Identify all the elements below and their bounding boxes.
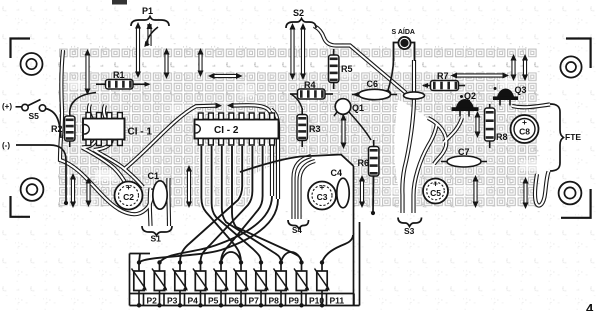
svg-text:CI - 2: CI - 2 <box>214 125 239 136</box>
svg-text:C4: C4 <box>331 168 343 178</box>
svg-text:+: + <box>126 182 131 192</box>
svg-text:S AÍDA: S AÍDA <box>392 27 415 36</box>
svg-text:P5: P5 <box>208 296 219 306</box>
svg-text:P2: P2 <box>147 296 158 306</box>
svg-text:P9: P9 <box>289 296 300 306</box>
svg-text:P10: P10 <box>309 296 324 306</box>
svg-text:P1: P1 <box>142 6 153 16</box>
svg-text:R2: R2 <box>51 124 63 134</box>
svg-text:P4: P4 <box>188 296 199 306</box>
svg-text:P3: P3 <box>167 296 178 306</box>
svg-text:+: + <box>433 179 438 189</box>
svg-text:P7: P7 <box>249 296 260 306</box>
svg-text:S1: S1 <box>151 234 162 244</box>
svg-text:R4: R4 <box>304 80 316 90</box>
svg-text:C5: C5 <box>430 188 441 198</box>
svg-text:R5: R5 <box>341 64 353 74</box>
svg-text:+: + <box>320 182 325 192</box>
svg-text:Q2: Q2 <box>464 91 476 101</box>
svg-text:S3: S3 <box>404 226 415 236</box>
svg-text:C1: C1 <box>148 171 160 181</box>
svg-text:R8: R8 <box>496 132 508 142</box>
svg-text:R7: R7 <box>437 71 449 81</box>
svg-text:(-): (-) <box>2 141 10 150</box>
svg-text:S5: S5 <box>29 111 40 121</box>
svg-text:C7: C7 <box>458 147 470 157</box>
svg-text:FTE: FTE <box>565 132 581 142</box>
svg-text:R1: R1 <box>113 70 125 80</box>
svg-text:C3: C3 <box>317 192 328 202</box>
svg-text:Q3: Q3 <box>515 85 527 95</box>
svg-text:R3: R3 <box>309 124 321 134</box>
svg-text:+: + <box>522 117 527 127</box>
svg-text:R6: R6 <box>358 158 370 168</box>
svg-text:4: 4 <box>586 301 594 311</box>
svg-text:P8: P8 <box>269 296 280 306</box>
svg-text:CI - 1: CI - 1 <box>128 127 153 138</box>
svg-text:C2: C2 <box>123 192 134 202</box>
svg-text:P6: P6 <box>229 296 240 306</box>
svg-text:Q1: Q1 <box>352 103 364 113</box>
svg-text:(+): (+) <box>2 102 12 111</box>
svg-text:C8: C8 <box>519 127 530 137</box>
svg-text:S2: S2 <box>293 8 304 18</box>
svg-text:S4: S4 <box>292 226 302 235</box>
svg-text:C6: C6 <box>367 79 379 89</box>
svg-text:P11: P11 <box>330 296 345 306</box>
